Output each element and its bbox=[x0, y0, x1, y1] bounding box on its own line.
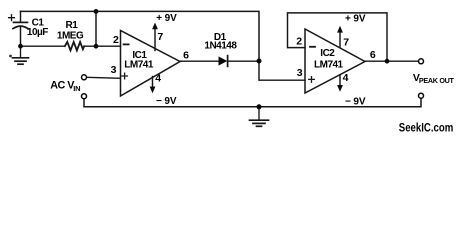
minus sign inside IC2 pin2 bbox=[310, 46, 315, 48]
IC2 pin7 +9V arrow bbox=[339, 31, 341, 48]
svg-text:+ 9V: + 9V bbox=[156, 13, 177, 24]
terminal AC Vin bottom bbox=[82, 94, 87, 99]
svg-text:2: 2 bbox=[296, 35, 302, 47]
diode D1 arrow bbox=[219, 56, 228, 65]
svg-text:10µF: 10µF bbox=[27, 27, 48, 38]
svg-text:3: 3 bbox=[297, 67, 303, 79]
svg-text:2: 2 bbox=[113, 34, 119, 46]
svg-text:LM741: LM741 bbox=[124, 60, 154, 71]
svg-text:3: 3 bbox=[111, 64, 117, 76]
node label AC Vin bbox=[50, 80, 80, 94]
svg-text:6: 6 bbox=[370, 49, 376, 61]
terminal AC Vin top bbox=[82, 75, 87, 80]
svg-text:SeekIC.com: SeekIC.com bbox=[399, 121, 454, 135]
svg-text:R1: R1 bbox=[66, 20, 79, 31]
svg-text:IC2: IC2 bbox=[320, 48, 335, 59]
ground at bottom rail bbox=[250, 107, 269, 127]
svg-text:4: 4 bbox=[155, 73, 161, 85]
svg-text:+ 9V: + 9V bbox=[345, 13, 366, 24]
diode D1 cathode bar bbox=[227, 56, 229, 67]
svg-text:− 9V: − 9V bbox=[156, 96, 177, 107]
IC1 pin7 +9V arrow bbox=[154, 28, 156, 51]
terminal Vpeak out bottom bbox=[419, 93, 424, 98]
arrowhead IC2 -9V bbox=[337, 85, 343, 92]
op-amp U2 triangle IC2 bbox=[305, 29, 365, 93]
wire: diode cathode to node A bbox=[229, 60, 259, 62]
wire: top rail from C1 top to node A drop bbox=[21, 11, 260, 61]
svg-text:IN: IN bbox=[73, 84, 80, 93]
wire: IC2 output to Vpeak terminal bbox=[365, 60, 418, 62]
junction dot top rail x96 bbox=[94, 9, 99, 14]
svg-text:PEAK OUT: PEAK OUT bbox=[419, 76, 455, 85]
junction dot C1 bottom node bbox=[18, 44, 23, 49]
wire: bottom rail bbox=[84, 99, 421, 107]
IC1 pin4 -9V arrow bbox=[152, 77, 154, 88]
resistor R1 zigzag bbox=[65, 42, 84, 51]
minus sign inside IC1 pin2 bbox=[124, 43, 129, 45]
op-amp U1 triangle IC1 bbox=[121, 31, 181, 97]
svg-text:− 9V: − 9V bbox=[345, 96, 366, 107]
junction dot node A diode output bbox=[257, 59, 262, 64]
svg-text:7: 7 bbox=[157, 31, 163, 43]
polarity plus of C1 bbox=[9, 15, 15, 21]
svg-text:1N4148: 1N4148 bbox=[204, 41, 237, 52]
svg-text:6: 6 bbox=[183, 50, 189, 62]
ground under C1 bbox=[13, 46, 29, 64]
wire: vertical link top rail to R1 right node bbox=[95, 11, 97, 46]
wire: AC Vin hot terminal to IC1 pin3 bbox=[87, 77, 121, 78]
arrowhead IC1 +9V bbox=[152, 23, 158, 30]
junction dot bottom rail ground bbox=[257, 104, 262, 109]
capacitor C1 bbox=[13, 11, 28, 46]
junction dot IC2 output node bbox=[385, 59, 390, 64]
junction dot R1 right node bbox=[94, 44, 99, 49]
ink speck bbox=[9, 55, 12, 58]
node label Vpeak out bbox=[413, 72, 455, 85]
plus sign inside IC1 pin3 bbox=[122, 73, 128, 79]
IC2 pin4 -9V arrow bbox=[339, 75, 341, 86]
arrowhead IC1 -9V bbox=[150, 87, 156, 94]
svg-text:7: 7 bbox=[343, 36, 349, 48]
plus sign inside IC2 pin3 bbox=[309, 77, 315, 83]
wire: IC2 feedback loop output to pin2 bbox=[288, 13, 388, 61]
svg-text:AC V: AC V bbox=[50, 80, 75, 92]
wire: IC1 output to diode bbox=[180, 60, 219, 62]
arrowhead IC2 +9V bbox=[337, 26, 343, 33]
wire: node A down to IC2 pin3 bbox=[259, 61, 305, 80]
svg-text:4: 4 bbox=[343, 72, 349, 84]
svg-text:LM741: LM741 bbox=[314, 59, 344, 70]
svg-text:1MEG: 1MEG bbox=[57, 31, 84, 42]
terminal Vpeak out top bbox=[419, 59, 424, 64]
wire: R1 horizontal wire (ground node to IC1 pin 2) bbox=[21, 45, 121, 47]
